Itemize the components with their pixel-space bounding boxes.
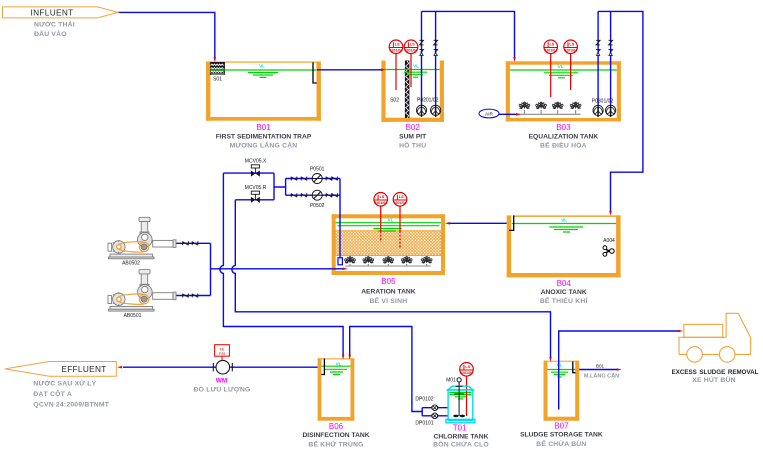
svg-text:B02: B02 [406, 123, 421, 132]
svg-text:BỂ KHỬ TRÙNG: BỂ KHỬ TRÙNG [308, 440, 363, 449]
svg-text:AERATION TANK: AERATION TANK [361, 289, 416, 296]
svg-text:EQUALIZATION TANK: EQUALIZATION TANK [529, 134, 599, 141]
svg-text:VL: VL [557, 363, 563, 368]
svg-text:EFFLUENT: EFFLUENT [61, 364, 106, 374]
svg-text:B01: B01 [596, 363, 605, 368]
svg-text:QCVN 24:2009/BTNMT: QCVN 24:2009/BTNMT [33, 402, 109, 409]
svg-text:DP0101: DP0101 [415, 421, 433, 427]
svg-text:P0201/02: P0201/02 [417, 98, 439, 104]
svg-text:BỂ CHỨA BÙN: BỂ CHỨA BÙN [536, 439, 586, 448]
svg-text:F05: F05 [219, 352, 225, 356]
svg-text:CHLORINE TANK: CHLORINE TANK [434, 434, 489, 441]
svg-text:NƯỚC SAU XỬ LÝ: NƯỚC SAU XỬ LÝ [33, 378, 96, 387]
svg-text:AB0501: AB0501 [124, 313, 142, 319]
svg-text:T01: T01 [453, 424, 467, 433]
svg-text:P0301/02: P0301/02 [592, 99, 614, 105]
svg-text:S02: S02 [390, 98, 399, 104]
svg-text:SUM PIT: SUM PIT [399, 134, 427, 141]
svg-text:ANOXIC TANK: ANOXIC TANK [541, 289, 587, 296]
svg-text:AB0502: AB0502 [122, 261, 140, 267]
svg-text:FE: FE [220, 347, 225, 351]
svg-text:VL: VL [558, 64, 564, 69]
svg-text:HỒ THU: HỒ THU [399, 140, 426, 150]
svg-text:BỂ ĐIỀU HÒA: BỂ ĐIỀU HÒA [540, 140, 587, 150]
svg-text:WM: WM [216, 378, 228, 385]
svg-text:A004: A004 [603, 238, 615, 244]
svg-text:B01: B01 [256, 123, 271, 132]
svg-text:S01: S01 [213, 77, 222, 83]
svg-text:B05: B05 [381, 277, 396, 286]
svg-text:B03: B03 [556, 123, 571, 132]
svg-text:ĐO LƯU LƯỢNG: ĐO LƯU LƯỢNG [194, 387, 251, 394]
svg-text:XE HÚT BÙN: XE HÚT BÙN [692, 375, 736, 384]
svg-text:ĐẦU VÀO: ĐẦU VÀO [34, 28, 67, 38]
svg-text:AIR: AIR [485, 111, 494, 117]
svg-text:NƯỚC THẢI: NƯỚC THẢI [34, 19, 75, 28]
svg-text:P0501: P0501 [310, 167, 325, 173]
svg-text:EXCESS SLUDGE REMOVAL: EXCESS SLUDGE REMOVAL [672, 369, 759, 376]
svg-text:ĐẠT CỘT A: ĐẠT CỘT A [33, 389, 72, 398]
svg-text:VL: VL [336, 361, 342, 366]
svg-text:BỂ THIẾU KHÍ: BỂ THIẾU KHÍ [540, 295, 589, 305]
svg-text:MCV05.X: MCV05.X [245, 158, 267, 164]
svg-text:BỂ VI SINH: BỂ VI SINH [369, 296, 407, 305]
svg-text:VL: VL [388, 217, 394, 222]
svg-text:B07: B07 [554, 422, 569, 431]
svg-text:DP0102: DP0102 [415, 397, 433, 403]
svg-text:B06: B06 [329, 422, 344, 431]
svg-text:M01: M01 [446, 377, 456, 383]
svg-text:M.LẮNG CẶN: M.LẮNG CẶN [584, 371, 619, 379]
svg-text:SLUDGE STORAGE TANK: SLUDGE STORAGE TANK [520, 432, 603, 439]
svg-text:INFLUENT: INFLUENT [31, 7, 74, 17]
svg-text:P0502: P0502 [310, 203, 325, 209]
svg-text:MƯƠNG LẮNG CẶN: MƯƠNG LẮNG CẶN [230, 141, 298, 150]
svg-text:FIRST SEDIMENTATION TRAP: FIRST SEDIMENTATION TRAP [216, 134, 312, 141]
svg-text:VL: VL [561, 218, 567, 223]
svg-text:DISINFECTION TANK: DISINFECTION TANK [302, 432, 369, 439]
svg-text:MCV05.R: MCV05.R [245, 185, 267, 191]
svg-text:VL: VL [413, 63, 419, 68]
svg-text:B04: B04 [557, 279, 572, 288]
svg-text:VL: VL [259, 64, 265, 69]
